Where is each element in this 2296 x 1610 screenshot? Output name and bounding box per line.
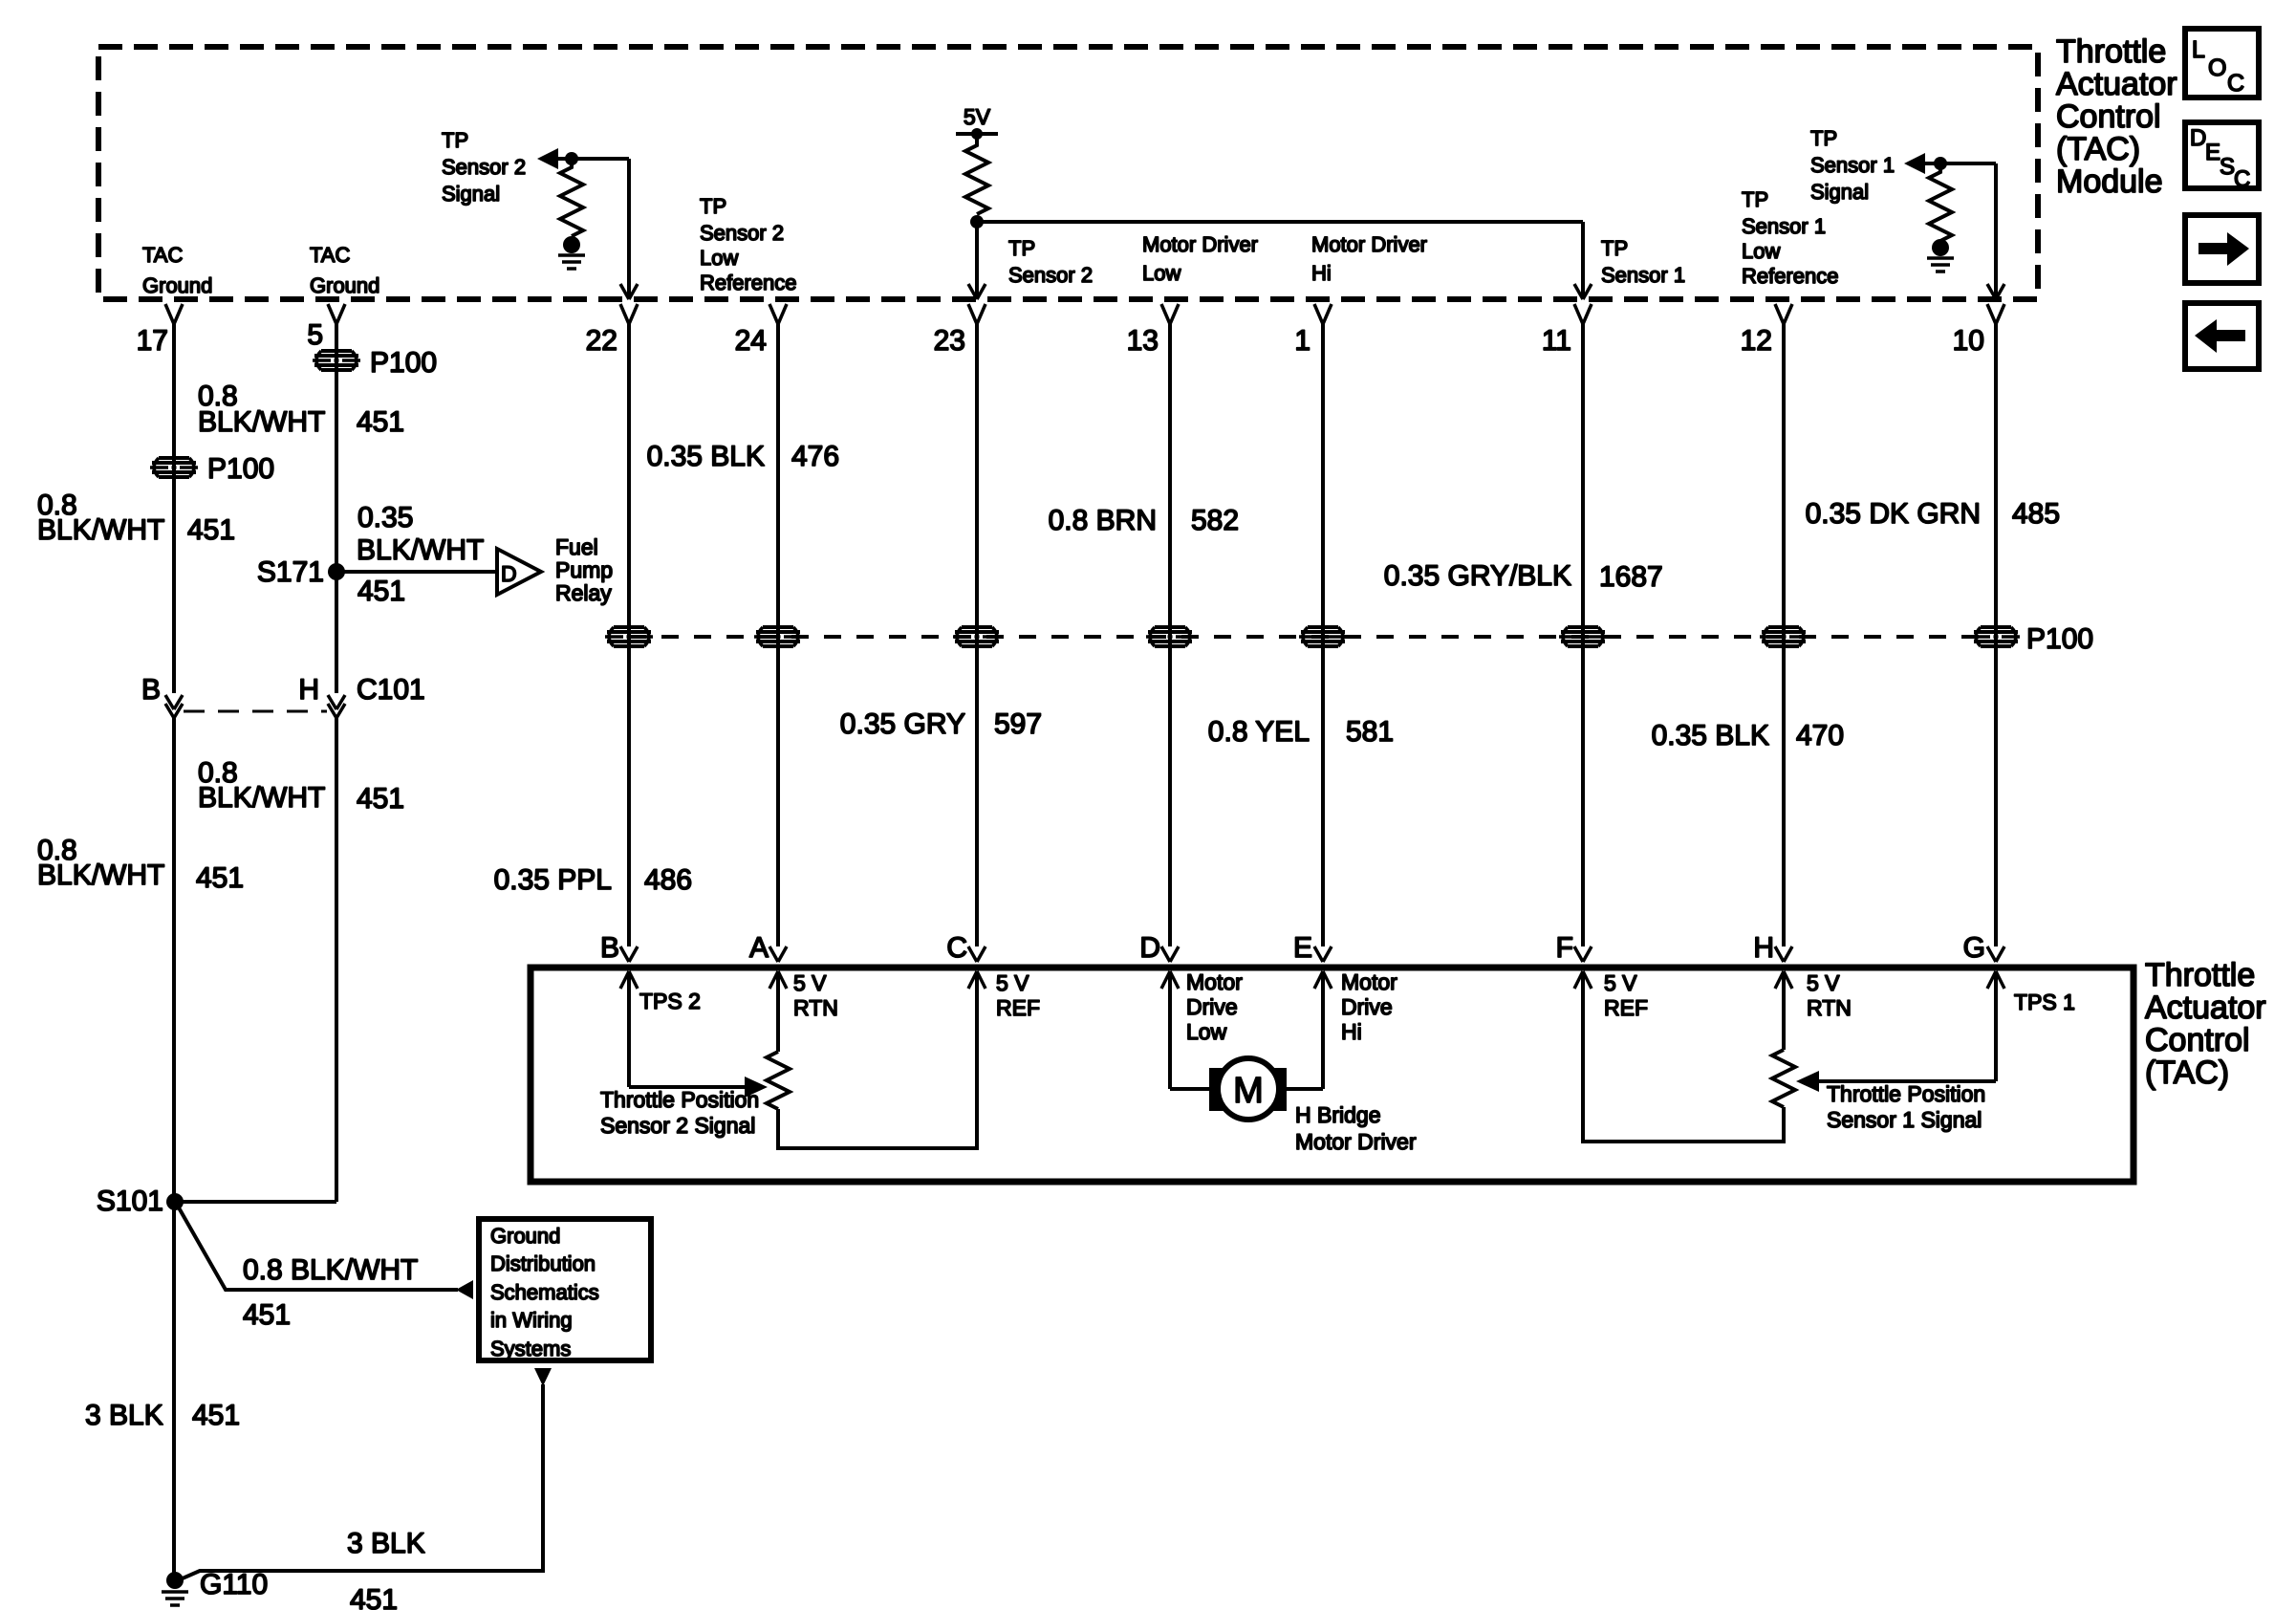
TAC pin B terminal chevron — [620, 946, 638, 962]
svg-text:TP: TP — [700, 194, 726, 218]
svg-text:Drive: Drive — [1341, 994, 1393, 1019]
svg-text:A: A — [749, 932, 769, 964]
svg-text:Actuator: Actuator — [2056, 66, 2177, 102]
pin 12 name: TP Sensor 1 Low Reference — [1742, 187, 1839, 288]
svg-text:486: 486 — [644, 864, 692, 896]
pin 1 terminal chevron — [1314, 304, 1332, 324]
svg-text:BLK/WHT: BLK/WHT — [198, 406, 325, 438]
svg-text:23: 23 — [934, 325, 965, 357]
svg-text:Sensor 1: Sensor 1 — [1742, 214, 1826, 238]
label: Throttle Actuator Control (TAC) — [2145, 957, 2266, 1091]
pin 10 terminal chevron — [1987, 304, 2004, 324]
svg-text:Distribution: Distribution — [490, 1251, 596, 1275]
pin 13 name: Motor Driver Low — [1142, 232, 1258, 285]
svg-text:Schematics: Schematics — [490, 1280, 599, 1304]
TAC pin B internal: TPS 2 wiper — [620, 971, 768, 1098]
svg-text:0.8 BRN: 0.8 BRN — [1049, 505, 1157, 536]
svg-text:RTN: RTN — [793, 995, 838, 1020]
svg-text:5V: 5V — [964, 104, 991, 129]
connector P100 on pin 5 wire — [313, 351, 360, 370]
svg-text:TP: TP — [442, 128, 468, 152]
svg-text:1: 1 — [1294, 325, 1310, 357]
TAC module boundary (dashed box) — [98, 47, 2038, 299]
svg-text:17: 17 — [137, 325, 168, 357]
svg-text:Ground: Ground — [490, 1224, 560, 1248]
wire label 0.8 BRN 582 (pin 13) — [1049, 505, 1239, 536]
svg-text:D: D — [2190, 125, 2206, 151]
svg-text:0.35 GRY/BLK: 0.35 GRY/BLK — [1384, 560, 1571, 592]
wire label 0.35 DK GRN 485 (pin 10) — [1806, 498, 2060, 530]
TAC pin A terminal chevron — [769, 946, 787, 962]
wire pin 10 — [1994, 322, 1998, 946]
connector icon on wire 1 — [1299, 627, 1347, 646]
svg-text:Throttle: Throttle — [2056, 33, 2166, 70]
svg-text:Throttle: Throttle — [2145, 957, 2255, 993]
svg-text:476: 476 — [791, 441, 839, 472]
svg-text:G: G — [1963, 932, 1985, 964]
TP Sensor 1 Signal internal circuit — [1904, 153, 2004, 299]
wire label 0.8 BLK/WHT 451 (pin 17 upper) — [37, 490, 235, 546]
label 3 BLK 451 (bottom wire) — [347, 1528, 425, 1610]
wire from ground distribution box to G110 — [176, 1368, 552, 1581]
5V supply internal circuit — [956, 104, 1592, 299]
svg-text:Low: Low — [1186, 1019, 1227, 1044]
pin 5 name: TAC Ground — [310, 243, 379, 297]
pin 23 name: TP Sensor 2 — [1008, 236, 1093, 287]
svg-text:451: 451 — [243, 1299, 291, 1331]
pin 13 terminal chevron — [1161, 304, 1179, 324]
svg-text:Relay: Relay — [555, 580, 612, 605]
svg-text:BLK/WHT: BLK/WHT — [37, 859, 164, 891]
svg-text:BLK/WHT: BLK/WHT — [37, 514, 164, 546]
svg-text:0.8 BLK/WHT: 0.8 BLK/WHT — [243, 1254, 418, 1286]
svg-text:11: 11 — [1542, 325, 1571, 357]
svg-text:TAC: TAC — [310, 243, 350, 267]
svg-text:P100: P100 — [2026, 623, 2093, 655]
svg-text:0.8 YEL: 0.8 YEL — [1208, 716, 1310, 748]
svg-text:5 V: 5 V — [1807, 970, 1840, 995]
wire pin 11 — [1581, 322, 1585, 946]
svg-text:TP: TP — [1601, 236, 1628, 260]
svg-text:Low: Low — [1142, 261, 1180, 285]
TAC pin D terminal chevron — [1161, 946, 1179, 962]
svg-text:5 V: 5 V — [1604, 970, 1637, 995]
svg-text:RTN: RTN — [1807, 995, 1852, 1020]
svg-text:H: H — [298, 674, 319, 706]
svg-text:485: 485 — [2012, 498, 2060, 530]
svg-text:Actuator: Actuator — [2145, 990, 2266, 1026]
svg-text:E: E — [2205, 140, 2220, 165]
svg-text:TP: TP — [1810, 126, 1837, 150]
svg-text:(TAC): (TAC) — [2145, 1055, 2229, 1091]
wire to ground distribution — [176, 1203, 458, 1290]
svg-text:Motor: Motor — [1186, 969, 1243, 994]
label 0.35 BLK/WHT 451 (S171 branch) — [357, 502, 484, 607]
svg-text:TAC: TAC — [142, 243, 183, 267]
svg-text:REF: REF — [996, 995, 1040, 1020]
svg-text:Control: Control — [2145, 1022, 2250, 1058]
svg-text:Motor Driver: Motor Driver — [1142, 232, 1258, 256]
svg-text:Module: Module — [2056, 163, 2163, 200]
svg-text:Sensor 2: Sensor 2 — [442, 155, 526, 179]
svg-text:TP: TP — [1008, 236, 1035, 260]
svg-text:Reference: Reference — [1742, 264, 1839, 288]
svg-text:TPS 1: TPS 1 — [2014, 990, 2075, 1014]
svg-text:451: 451 — [357, 576, 405, 607]
svg-text:Ground: Ground — [142, 273, 212, 297]
C101 dashed connector line — [184, 710, 327, 713]
connector icon on wire 23 — [953, 627, 1001, 646]
TP Sensor 2 Signal internal circuit — [537, 148, 638, 299]
TAC device box — [531, 968, 2134, 1182]
svg-text:Sensor 2 Signal: Sensor 2 Signal — [600, 1113, 755, 1138]
pin 12 terminal chevron — [1775, 304, 1792, 324]
wire label 0.35 BLK 470 (pin 12) — [1652, 720, 1845, 751]
pin 11 name: TP Sensor 1 — [1601, 236, 1685, 287]
TAC pin F/H internal: 5V REF / RTN with TPS1 potentiometer — [1574, 970, 1852, 1142]
svg-text:Pump: Pump — [555, 557, 613, 582]
svg-text:P100: P100 — [370, 347, 437, 379]
wire label 0.8 BLK/WHT 451 (pin 5 upper) — [198, 381, 404, 438]
svg-text:(TAC): (TAC) — [2056, 131, 2140, 167]
wire pin 5 — [335, 322, 338, 693]
svg-text:Hi: Hi — [1341, 1019, 1362, 1044]
label: Fuel Pump Relay — [555, 534, 613, 605]
pin 1 name: Motor Driver Hi — [1311, 232, 1427, 285]
label: Throttle Actuator Control (TAC) Module — [2056, 33, 2177, 200]
wire pin 17 — [172, 322, 176, 693]
svg-text:S: S — [2220, 154, 2235, 180]
svg-text:Sensor 1: Sensor 1 — [1810, 153, 1895, 177]
svg-text:Sensor 1 Signal: Sensor 1 Signal — [1827, 1107, 1982, 1132]
svg-text:3 BLK: 3 BLK — [347, 1528, 425, 1559]
svg-text:0.35 DK GRN: 0.35 DK GRN — [1806, 498, 1981, 530]
fuel pump relay destination triangle D — [497, 549, 541, 595]
svg-text:451: 451 — [187, 514, 235, 546]
svg-text:10: 10 — [1953, 325, 1984, 357]
svg-text:H: H — [1753, 932, 1774, 964]
splice S101 — [97, 1186, 336, 1217]
TAC pin E terminal chevron — [1314, 946, 1332, 962]
svg-text:22: 22 — [586, 325, 617, 357]
svg-text:BLK/WHT: BLK/WHT — [198, 782, 325, 814]
svg-text:12: 12 — [1741, 325, 1772, 357]
wire label 0.35 BLK 476 (pin 24) — [647, 441, 840, 472]
svg-text:TPS 2: TPS 2 — [639, 989, 701, 1013]
svg-text:E: E — [1293, 932, 1312, 964]
label: H Bridge Motor Driver — [1295, 1102, 1417, 1154]
svg-text:Signal: Signal — [1810, 180, 1869, 204]
svg-text:Motor Driver: Motor Driver — [1295, 1129, 1417, 1154]
svg-text:5: 5 — [307, 319, 323, 351]
pin 24 name: TP Sensor 2 Low Reference — [700, 194, 797, 294]
svg-text:0.35 PPL: 0.35 PPL — [494, 864, 612, 896]
svg-text:0.35 BLK: 0.35 BLK — [647, 441, 765, 472]
connector P100 on pin 17 wire — [150, 458, 198, 477]
pin 23 terminal chevron — [968, 304, 986, 324]
svg-text:0.35 BLK: 0.35 BLK — [1652, 720, 1769, 751]
svg-text:B: B — [600, 932, 619, 964]
svg-text:5 V: 5 V — [996, 970, 1029, 995]
ground distribution schematics box — [479, 1219, 651, 1360]
svg-text:24: 24 — [735, 325, 767, 357]
svg-text:P100: P100 — [207, 453, 274, 485]
svg-text:Control: Control — [2056, 98, 2161, 135]
ground G110 — [162, 1569, 268, 1605]
svg-text:S101: S101 — [97, 1186, 163, 1217]
svg-text:H Bridge: H Bridge — [1295, 1102, 1380, 1127]
connector C101 pin H — [298, 674, 345, 718]
right-arrow legend box — [2185, 215, 2259, 283]
svg-text:Ground: Ground — [310, 273, 379, 297]
svg-text:1687: 1687 — [1599, 561, 1663, 593]
svg-text:5 V: 5 V — [793, 970, 827, 995]
connector icon on wire 11 — [1559, 627, 1607, 646]
svg-text:Hi: Hi — [1311, 261, 1332, 285]
wire label 0.8 BLK/WHT 451 (pin 17 lower) — [37, 835, 244, 894]
svg-text:Throttle Position: Throttle Position — [600, 1087, 759, 1112]
connector icon on wire 10 — [1972, 627, 2020, 646]
svg-text:13: 13 — [1127, 325, 1159, 357]
wire pin 13 — [1168, 322, 1172, 946]
svg-text:451: 451 — [350, 1584, 398, 1610]
wire label 0.35 GRY/BLK 1687 (pin 11) — [1384, 560, 1663, 593]
TAC pin A internal: 5V RTN with TPS2 potentiometer — [767, 970, 1040, 1148]
label 0.8 BLK/WHT 451 (ground distribution branch) — [243, 1254, 418, 1331]
svg-text:Sensor 2: Sensor 2 — [700, 221, 784, 245]
svg-text:D: D — [501, 561, 517, 586]
pin 5 terminal chevron — [328, 304, 345, 324]
TAC motor M and H-bridge — [1161, 969, 1397, 1120]
svg-text:451: 451 — [357, 406, 404, 438]
LOC legend box — [2185, 29, 2259, 98]
svg-text:0.35 GRY: 0.35 GRY — [840, 708, 965, 740]
svg-text:REF: REF — [1604, 995, 1648, 1020]
label: Throttle Position Sensor 1 Signal — [1827, 1081, 1985, 1132]
svg-text:O: O — [2208, 54, 2226, 81]
svg-text:D: D — [1139, 932, 1160, 964]
svg-text:597: 597 — [994, 708, 1042, 740]
connector C101 pin B — [141, 674, 183, 718]
wire pin 24 — [776, 322, 780, 946]
svg-text:BLK/WHT: BLK/WHT — [357, 534, 484, 566]
svg-text:0.35: 0.35 — [357, 502, 413, 533]
wire pin 1 — [1321, 322, 1325, 946]
TAC pin H terminal chevron — [1775, 946, 1792, 962]
wire label 0.35 GRY 597 (pin 23) — [840, 708, 1042, 740]
connector icon on wire 24 — [754, 627, 802, 646]
svg-text:C: C — [946, 932, 967, 964]
pin 22 terminal chevron — [620, 304, 638, 324]
connector icon on wire 12 — [1760, 627, 1808, 646]
TAC pin F terminal chevron — [1574, 946, 1592, 962]
svg-text:F: F — [1556, 932, 1573, 964]
svg-text:in Wiring: in Wiring — [490, 1308, 573, 1332]
svg-text:B: B — [141, 674, 161, 706]
TAC pin G terminal chevron — [1987, 946, 2004, 962]
svg-text:Drive: Drive — [1186, 994, 1238, 1019]
svg-text:C101: C101 — [357, 674, 425, 706]
svg-text:Sensor 2: Sensor 2 — [1008, 263, 1093, 287]
svg-text:G110: G110 — [200, 1569, 268, 1600]
svg-text:581: 581 — [1346, 716, 1394, 748]
svg-text:451: 451 — [196, 862, 244, 894]
svg-text:Low: Low — [1742, 239, 1780, 263]
label 3 BLK 451 (left wire) — [85, 1400, 240, 1431]
connector icon on wire 22 — [605, 627, 653, 646]
svg-text:Systems: Systems — [490, 1337, 571, 1360]
svg-text:451: 451 — [192, 1400, 240, 1431]
svg-text:S171: S171 — [257, 556, 324, 588]
label: TP Sensor 1 Signal — [1810, 126, 1895, 204]
wire pin 22 — [627, 322, 631, 946]
svg-text:Motor: Motor — [1341, 969, 1397, 994]
wire label 0.35 PPL 486 (pin 22) — [494, 864, 693, 896]
splice S171 — [257, 556, 497, 588]
connector icon on wire 13 — [1146, 627, 1194, 646]
svg-text:Throttle Position: Throttle Position — [1827, 1081, 1985, 1106]
svg-text:TP: TP — [1742, 187, 1768, 211]
TAC pin G internal: TPS 1 wiper — [1796, 971, 2075, 1092]
svg-text:M: M — [1233, 1071, 1264, 1111]
svg-text:Sensor 1: Sensor 1 — [1601, 263, 1685, 287]
left-arrow legend box — [2185, 303, 2259, 369]
inline connector dashed line P100 — [629, 635, 1996, 639]
svg-text:3 BLK: 3 BLK — [85, 1400, 163, 1431]
svg-text:451: 451 — [357, 783, 404, 815]
svg-text:Fuel: Fuel — [555, 534, 598, 559]
svg-text:Reference: Reference — [700, 271, 797, 294]
svg-text:C: C — [2227, 70, 2244, 97]
svg-text:582: 582 — [1191, 505, 1239, 536]
wire label 0.8 YEL 581 (pin 1) — [1208, 716, 1394, 748]
svg-text:470: 470 — [1796, 720, 1844, 751]
label: TP Sensor 2 Signal — [442, 128, 526, 206]
svg-text:Motor Driver: Motor Driver — [1311, 232, 1427, 256]
pin 17 terminal chevron — [165, 304, 183, 324]
pin 24 terminal chevron — [769, 304, 787, 324]
TAC pin C terminal chevron — [968, 946, 986, 962]
wire pin 12 — [1782, 322, 1786, 946]
svg-text:L: L — [2192, 36, 2205, 63]
wire label 0.8 BLK/WHT 451 (pin 5 lower) — [198, 757, 404, 815]
DESC legend box — [2185, 122, 2259, 192]
svg-text:Signal: Signal — [442, 182, 500, 206]
pin 17 name: TAC Ground — [142, 243, 212, 297]
wire pin 23 — [975, 322, 979, 946]
pin 11 terminal chevron — [1574, 304, 1592, 324]
svg-text:Low: Low — [700, 246, 738, 270]
svg-text:C: C — [2234, 166, 2250, 192]
label: Throttle Position Sensor 2 Signal — [600, 1087, 759, 1138]
